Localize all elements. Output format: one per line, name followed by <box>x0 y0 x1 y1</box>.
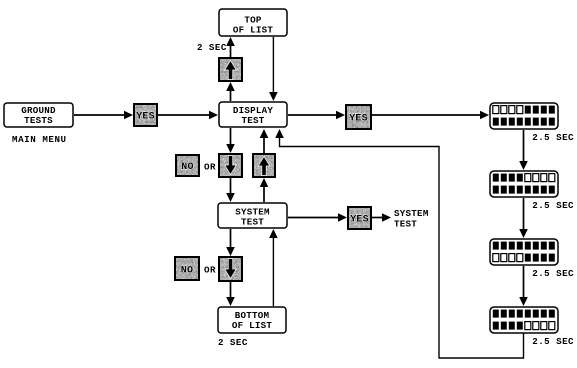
svg-text:YES: YES <box>349 114 368 125</box>
wire SYSTEM TEST to YES <box>288 213 347 222</box>
wire GROUND TESTS to YES <box>74 111 133 120</box>
svg-text:NO: NO <box>181 265 193 276</box>
svg-text:TEST: TEST <box>241 115 264 126</box>
svg-text:TEST: TEST <box>241 216 264 227</box>
svg-text:TEST: TEST <box>394 218 417 229</box>
wire UP button to DISPLAY TEST bottom <box>260 129 269 153</box>
wire YES to display 1 <box>372 111 489 120</box>
svg-text:SYSTEM: SYSTEM <box>394 208 429 219</box>
wire TOP OF LIST down to DISPLAY TEST <box>269 37 278 101</box>
display 3 <box>490 239 558 265</box>
wire YES to DISPLAY TEST <box>158 111 218 120</box>
button UP (from system test) <box>253 154 275 177</box>
box TOP OF LIST <box>219 9 287 36</box>
wire display 2 to display 3 <box>519 198 528 238</box>
box SYSTEM TEST <box>218 203 287 228</box>
svg-text:MAIN MENU: MAIN MENU <box>12 134 67 145</box>
wire YES to SYSTEM TEST label <box>372 213 391 222</box>
button YES (system test) <box>348 207 371 229</box>
button DOWN (upper) <box>219 154 242 177</box>
svg-text:TESTS: TESTS <box>24 115 53 126</box>
wire SYSTEM TEST to UP button <box>260 178 269 202</box>
svg-text:OF LIST: OF LIST <box>233 24 274 35</box>
svg-text:OR: OR <box>204 265 216 276</box>
wire SYSTEM TEST down to DOWN button <box>226 229 235 256</box>
wire BOTTOM OF LIST up to SYSTEM TEST <box>269 229 278 306</box>
wire DISPLAY TEST to YES (display) <box>288 111 345 120</box>
button UP (to top of list) <box>219 58 242 81</box>
label SYSTEM TEST (exit) <box>394 208 429 230</box>
wire display 3 to display 4 <box>519 266 528 306</box>
svg-text:2.5 SEC: 2.5 SEC <box>532 268 574 279</box>
svg-text:YES: YES <box>350 215 369 226</box>
wire DISPLAY TEST up to UP button <box>226 82 235 101</box>
svg-text:OF LIST: OF LIST <box>232 320 273 331</box>
wire display 1 to display 2 <box>519 130 528 170</box>
wire DISPLAY TEST down to DOWN button <box>226 128 235 153</box>
button YES (display test) <box>346 105 371 129</box>
button DOWN (lower) <box>219 257 242 281</box>
svg-text:2.5 SEC: 2.5 SEC <box>532 132 574 143</box>
display 1 <box>490 103 558 129</box>
display 2 <box>490 171 558 197</box>
button NO (upper) <box>176 155 199 176</box>
svg-text:NO: NO <box>181 162 193 173</box>
button NO (lower) <box>175 257 199 280</box>
svg-text:2 SEC: 2 SEC <box>218 337 248 348</box>
wire display 4 return to DISPLAY TEST <box>275 129 523 358</box>
svg-text:OR: OR <box>204 161 216 172</box>
wire DOWN button to BOTTOM OF LIST <box>226 282 235 306</box>
svg-text:YES: YES <box>136 112 155 123</box>
svg-text:2.5 SEC: 2.5 SEC <box>532 200 574 211</box>
svg-text:2.5 SEC: 2.5 SEC <box>532 336 574 347</box>
button YES (main menu) <box>134 104 157 126</box>
box DISPLAY TEST <box>219 102 287 127</box>
wire UP button to TOP OF LIST <box>226 37 235 57</box>
svg-text:2 SEC: 2 SEC <box>197 42 227 53</box>
box BOTTOM OF LIST <box>218 307 286 333</box>
wire DOWN button to SYSTEM TEST <box>226 178 235 202</box>
box GROUND TESTS <box>4 103 73 127</box>
display 4 <box>490 307 558 333</box>
